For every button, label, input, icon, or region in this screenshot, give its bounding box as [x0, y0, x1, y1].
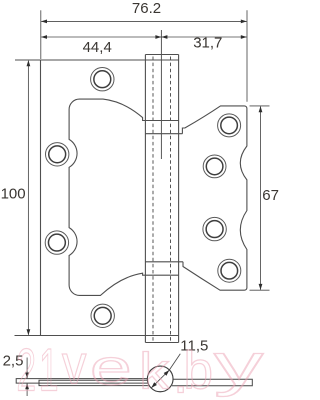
pin dashed line left — [152, 57, 154, 342]
side view leaf plate upper — [16, 379, 149, 384]
svg-text:2: 2 — [17, 338, 37, 400]
leader line 11,5 — [169, 354, 180, 370]
screw hole R3 — [203, 217, 226, 240]
screw hole L4 — [91, 304, 114, 327]
svg-text:31,7: 31,7 — [193, 35, 222, 52]
arrow 67 top — [259, 106, 263, 112]
barrel top edge — [145, 54, 178, 56]
svg-text:1: 1 — [39, 338, 59, 400]
screw hole R4 — [218, 259, 241, 282]
barrel centerline — [160, 30, 162, 159]
arrowheads — [25, 20, 262, 390]
extension line 67 top — [250, 105, 270, 107]
dimension line 2,5 lower — [26, 383, 28, 396]
diameter arrow line — [151, 370, 169, 388]
left leaf bottom edge — [15, 335, 179, 337]
arrow 31,7 right — [241, 35, 247, 39]
screw hole R2 — [203, 155, 226, 178]
barrel bottom edge — [145, 342, 178, 344]
side view right plate — [172, 379, 252, 386]
dimension line 100 — [27, 61, 29, 335]
svg-text:k: k — [139, 343, 169, 400]
arrow 2,5 down — [25, 373, 29, 379]
svg-text:76.2: 76.2 — [132, 0, 161, 17]
arrow 100 top — [27, 60, 31, 66]
knuckle joint line upper A — [145, 120, 178, 122]
arrow 2,5 up — [25, 383, 29, 389]
left leaf top edge — [15, 59, 179, 61]
dimension line 67 — [260, 107, 262, 290]
dimension line 2,5 upper — [26, 358, 28, 379]
extension line right top — [246, 10, 248, 102]
knuckle joint line upper B — [145, 133, 182, 135]
svg-text:e: e — [90, 339, 132, 395]
arrow 67 bottom — [259, 284, 263, 290]
diameter arrowhead SW — [151, 382, 157, 388]
barrel right edge — [178, 55, 180, 343]
svg-text:y: y — [214, 333, 264, 398]
side view barrel circle — [147, 366, 173, 392]
side view leaf plate lower — [39, 380, 151, 385]
left leaf left edge — [40, 60, 42, 336]
knuckle joint line lower B — [145, 274, 178, 276]
main object lines — [15, 55, 247, 343]
hidden pin lines (dashed) — [153, 57, 171, 342]
arrow 44,4 left — [41, 35, 47, 39]
extension line left top — [40, 10, 42, 59]
screw hole R1 — [218, 114, 241, 137]
diameter arrowhead NE — [164, 370, 170, 376]
screw hole L3 — [45, 231, 68, 254]
arrow 100 bottom — [27, 329, 31, 335]
left leaf inner recess panel — [69, 99, 145, 295]
svg-text:44,4: 44,4 — [83, 39, 112, 56]
svg-text:b: b — [184, 342, 213, 400]
diameter line in circle — [151, 370, 169, 388]
screw hole L1 — [91, 68, 114, 91]
watermark 21vek.by — [17, 333, 264, 400]
bottom side view — [16, 379, 252, 386]
screw hole L2 — [46, 143, 69, 166]
barrel left edge — [144, 55, 146, 343]
dimension line 76.2 — [41, 20, 246, 22]
dimension line 44,4 / 31,7 — [41, 36, 246, 38]
screw holes — [45, 68, 241, 328]
knuckle joint line lower A — [145, 261, 183, 263]
svg-text:v: v — [62, 333, 87, 396]
dimension lines — [27, 10, 269, 396]
arrow 76.2 right — [241, 20, 247, 24]
arrow 44,4 right — [155, 35, 161, 39]
svg-text:100: 100 — [1, 186, 26, 203]
svg-text:67: 67 — [262, 187, 279, 204]
arrow 76.2 left — [41, 20, 47, 24]
arrow 31,7 left — [161, 35, 167, 39]
extension line 67 bottom — [250, 289, 270, 291]
pin dashed line right — [170, 57, 172, 342]
right leaf outline — [182, 106, 247, 290]
